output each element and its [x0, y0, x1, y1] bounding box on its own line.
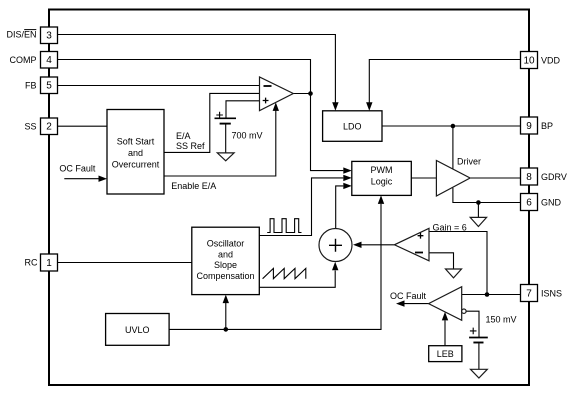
wire UVLO output to PWM logic	[169, 204, 381, 330]
svg-text:RC: RC	[25, 258, 38, 268]
svg-text:9: 9	[526, 121, 532, 132]
ground below 700 mV battery	[217, 153, 234, 161]
svg-text:LEB: LEB	[437, 349, 454, 359]
pin 1 RC	[41, 254, 58, 271]
arrow PWM input 3	[343, 183, 352, 189]
svg-text:SS Ref: SS Ref	[176, 141, 205, 151]
wire summing junction to PWM input 3	[336, 186, 344, 229]
node UVLO line to oscillator tee	[224, 327, 229, 332]
wire FB pin5 to E/A inverting input	[58, 85, 260, 87]
svg-text:ISNS: ISNS	[541, 288, 562, 298]
svg-text:Overcurrent: Overcurrent	[112, 160, 160, 170]
arrow Enable E/A into E/A bottom	[273, 102, 279, 111]
svg-text:Driver: Driver	[457, 157, 481, 167]
wire ISNS node up to gain amp non-inverting input	[429, 232, 487, 295]
wire E/A SS Ref from Soft Start to E/A	[164, 93, 260, 152]
pin 2 SS	[41, 118, 58, 135]
svg-text:150 mV: 150 mV	[486, 314, 517, 324]
wire OC Fault input to Soft Start	[64, 178, 99, 180]
svg-text:Compensation: Compensation	[196, 271, 254, 281]
wire OC comparator output	[405, 303, 429, 305]
amplifier Driver	[436, 161, 470, 197]
svg-text:and: and	[128, 148, 143, 158]
gain amp inverting mark	[415, 252, 423, 254]
E/A non-inverting mark	[263, 98, 269, 104]
wire ramp from Oscillator to summing junction	[259, 271, 335, 288]
wire LEB to OC comparator	[444, 320, 446, 345]
svg-text:LDO: LDO	[343, 121, 362, 131]
svg-text:and: and	[218, 249, 233, 259]
svg-text:Logic: Logic	[371, 177, 393, 187]
wire gain amp output to summing junction	[362, 244, 395, 246]
svg-text:FB: FB	[25, 81, 37, 91]
arrow UVLO line into PWM bottom	[378, 195, 384, 204]
arrow ramp into summing junction	[332, 262, 338, 271]
pin 3 DIS/EN	[41, 27, 58, 44]
svg-text:6: 6	[526, 197, 532, 208]
svg-text:10: 10	[523, 55, 535, 66]
arrow into Oscillator bottom	[223, 295, 229, 304]
arrow gain amp output into summing junction	[353, 242, 362, 248]
pin 4 COMP	[41, 52, 58, 69]
pin 8 GDRV	[521, 168, 538, 185]
op-amp E/A error amplifier	[260, 77, 294, 111]
battery 700 mV reference	[215, 112, 237, 153]
svg-text:COMP: COMP	[10, 55, 37, 65]
svg-text:OC Fault: OC Fault	[390, 291, 427, 301]
wire DIS/EN pin3 to LDO enable	[58, 35, 336, 103]
arrow PWM input 1	[343, 167, 352, 173]
svg-text:8: 8	[526, 172, 532, 183]
wire gain amp inverting input to ground	[429, 253, 454, 269]
arrow LEB into OC comparator	[442, 312, 448, 321]
wire SS pin2 to Soft Start block	[58, 125, 108, 127]
svg-text:E/A: E/A	[176, 131, 191, 141]
node E/A output junction	[308, 91, 313, 96]
svg-text:3: 3	[46, 31, 52, 42]
arrow OC Fault into Soft Start	[99, 176, 108, 182]
ground symbol near gain amp	[446, 269, 462, 278]
svg-text:Gain = 6: Gain = 6	[433, 223, 467, 233]
battery 150 mV reference	[469, 328, 488, 370]
svg-text:5: 5	[46, 81, 52, 92]
wire ISNS pin7 to OC comparator and node	[462, 294, 521, 296]
wire UVLO to Oscillator bottom	[225, 303, 227, 329]
node ISNS junction	[485, 292, 490, 297]
svg-text:VDD: VDD	[541, 55, 561, 65]
node GND line junction	[476, 200, 481, 205]
block Oscillator and Slope Compensation	[192, 227, 259, 294]
svg-text:7: 7	[526, 288, 532, 299]
ground symbol near GND pin	[470, 217, 486, 226]
svg-text:SS: SS	[24, 121, 36, 131]
wire BP node down to Driver supply	[452, 126, 454, 169]
block UVLO	[106, 314, 170, 346]
wire PWM logic output to Driver	[411, 177, 436, 179]
arrow into LDO top (enable)	[332, 102, 338, 111]
OC comparator inverting bubble	[462, 309, 466, 313]
svg-text:Slope: Slope	[214, 260, 237, 270]
waveform clock pulses	[267, 219, 301, 233]
wire VDD pin10 to LDO	[369, 60, 520, 103]
gain amp non-inverting mark	[418, 233, 424, 239]
svg-text:PWM: PWM	[371, 165, 393, 175]
IC boundary box	[49, 10, 529, 386]
E/A inverting mark	[264, 85, 272, 87]
pin 6 GND	[521, 194, 538, 211]
wire 700mV reference to E/A non-inverting input	[226, 101, 260, 118]
summing junction node	[319, 229, 352, 262]
wire Enable E/A from Soft Start to E/A	[164, 111, 276, 177]
svg-text:DIS/EN: DIS/EN	[6, 29, 36, 39]
block PWM Logic	[352, 161, 412, 195]
svg-text:2: 2	[46, 122, 52, 133]
block LDO	[323, 111, 382, 142]
wire GND node to ground stub	[477, 203, 479, 218]
wire COMP pin4 to E/A output node and down to PWM input 1	[58, 60, 344, 171]
svg-text:1: 1	[46, 258, 52, 269]
wire clock from Oscillator to PWM input 2	[259, 178, 343, 236]
wire Driver return to GND pin6	[453, 188, 521, 203]
svg-text:UVLO: UVLO	[125, 325, 150, 335]
arrow VDD into LDO top	[366, 102, 372, 111]
svg-text:Enable E/A: Enable E/A	[171, 181, 216, 191]
summing junction plus cross	[329, 239, 342, 252]
svg-text:GDRV: GDRV	[541, 172, 567, 182]
svg-text:700 mV: 700 mV	[232, 130, 263, 140]
svg-text:OC Fault: OC Fault	[59, 164, 96, 174]
wire Driver output to GDRV pin8	[470, 177, 520, 179]
waveform sawtooth ramp	[263, 268, 306, 278]
wire E/A output to node	[293, 93, 310, 95]
wire OC comparator inverting bubble to 150mV battery	[466, 311, 479, 337]
pin 10 VDD	[521, 52, 538, 69]
arrow PWM input 2	[343, 175, 352, 181]
comparator OC Fault	[429, 287, 462, 321]
svg-text:BP: BP	[541, 121, 553, 131]
arrow OC Fault output pointing left	[396, 300, 405, 306]
pin 9 BP	[521, 117, 538, 134]
svg-text:Oscillator: Oscillator	[207, 239, 245, 249]
svg-text:4: 4	[46, 55, 52, 66]
block Soft Start and Overcurrent	[107, 110, 164, 195]
block LEB	[429, 346, 462, 362]
pin 7 ISNS	[521, 285, 538, 302]
svg-text:Soft Start: Soft Start	[117, 137, 155, 147]
svg-text:GND: GND	[541, 197, 562, 207]
wire LDO output to BP pin9	[382, 125, 521, 127]
ground below 150 mV battery	[471, 369, 488, 378]
pin 5 FB	[41, 77, 58, 94]
node BP line to driver tee	[451, 124, 456, 129]
amplifier Gain = 6	[394, 228, 429, 260]
wire RC pin1 to Oscillator	[58, 262, 192, 264]
